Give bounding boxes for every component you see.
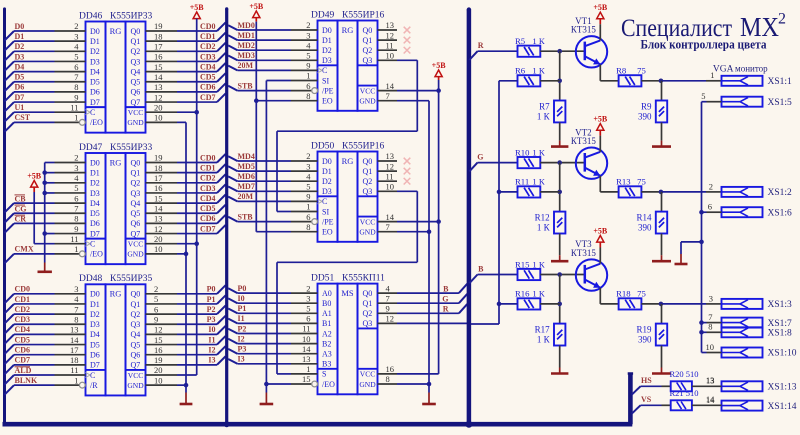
svg-text:75: 75: [637, 66, 646, 76]
svg-text:D4: D4: [15, 62, 25, 71]
svg-text:D4: D4: [90, 199, 100, 208]
svg-text:I0: I0: [238, 294, 245, 303]
svg-text:Q4: Q4: [131, 67, 141, 76]
svg-text:+5В: +5В: [190, 3, 205, 12]
svg-text:Q3: Q3: [363, 319, 373, 328]
svg-text:D6: D6: [90, 351, 100, 360]
svg-text:+5В: +5В: [27, 172, 42, 181]
svg-text:8: 8: [74, 214, 78, 224]
svg-text:Q4: Q4: [131, 199, 141, 208]
svg-text:6: 6: [74, 62, 78, 72]
svg-text:12: 12: [386, 30, 395, 40]
svg-text:D3: D3: [322, 56, 332, 65]
svg-text:DD48: DD48: [79, 274, 102, 284]
svg-text:15: 15: [302, 374, 311, 384]
svg-text:CD1: CD1: [15, 295, 31, 304]
svg-text:7: 7: [386, 91, 390, 101]
svg-text:19: 19: [154, 153, 163, 163]
svg-text:CD2: CD2: [15, 305, 31, 314]
svg-text:Блок контроллера цвета: Блок контроллера цвета: [641, 37, 767, 52]
svg-text:R19: R19: [636, 325, 652, 335]
svg-text:VCC: VCC: [360, 86, 375, 95]
svg-text:14: 14: [302, 344, 311, 354]
svg-text:Q0: Q0: [131, 158, 141, 167]
svg-text:11: 11: [302, 324, 310, 334]
svg-text:CD2: CD2: [200, 42, 216, 51]
svg-text:D5: D5: [90, 209, 100, 218]
svg-text:14: 14: [154, 72, 163, 82]
svg-text:GND: GND: [359, 380, 376, 389]
svg-text:7: 7: [74, 203, 78, 213]
svg-text:7: 7: [708, 312, 712, 322]
svg-text:R8: R8: [616, 66, 627, 76]
svg-text:D6: D6: [90, 219, 100, 228]
svg-text:12: 12: [386, 161, 395, 171]
svg-text:I2: I2: [208, 346, 215, 355]
svg-text:1 К: 1 К: [537, 111, 551, 121]
svg-text:390: 390: [638, 111, 652, 121]
svg-text:D7: D7: [90, 98, 100, 107]
svg-text:14: 14: [706, 394, 715, 404]
svg-text:CD7: CD7: [15, 356, 31, 365]
svg-text:D2: D2: [322, 177, 332, 186]
svg-text:Q3: Q3: [131, 57, 141, 66]
svg-text:D2: D2: [15, 42, 25, 51]
svg-text:15: 15: [154, 193, 163, 203]
svg-text:CD0: CD0: [200, 22, 216, 31]
svg-text:D2: D2: [90, 310, 100, 319]
svg-text:R6: R6: [515, 66, 526, 76]
svg-text:5: 5: [306, 182, 310, 192]
svg-text:Q1: Q1: [363, 167, 373, 176]
svg-text:1: 1: [74, 113, 78, 123]
svg-text:19: 19: [154, 21, 163, 31]
svg-text:RG: RG: [110, 289, 122, 299]
svg-text:10: 10: [386, 51, 395, 61]
svg-text:Q1: Q1: [131, 37, 141, 46]
svg-text:Q2: Q2: [363, 177, 373, 186]
svg-text:14: 14: [386, 212, 395, 222]
svg-text:XS1:3: XS1:3: [768, 300, 793, 310]
svg-text:R14: R14: [636, 213, 652, 223]
svg-text:К555ИР16: К555ИР16: [342, 141, 384, 151]
svg-text:1: 1: [74, 244, 78, 254]
svg-text:D1: D1: [322, 167, 332, 176]
svg-text:XS1:6: XS1:6: [768, 208, 793, 218]
svg-text:D1: D1: [90, 168, 100, 177]
svg-text:+5В: +5В: [432, 61, 447, 70]
svg-text:XS1:5: XS1:5: [768, 98, 793, 108]
svg-text:13: 13: [706, 375, 715, 385]
svg-text:+5В: +5В: [593, 227, 608, 236]
svg-text:Q6: Q6: [131, 219, 141, 228]
svg-text:17: 17: [70, 345, 79, 355]
svg-text:R13: R13: [616, 177, 630, 187]
svg-text:CR: CR: [15, 215, 27, 224]
svg-text:D2: D2: [322, 46, 332, 55]
svg-text:RG: RG: [342, 156, 354, 166]
svg-text:G: G: [477, 152, 483, 161]
svg-text:A2: A2: [322, 329, 332, 338]
svg-text:D5: D5: [90, 340, 100, 349]
svg-text:7: 7: [386, 293, 390, 303]
svg-text:/PE: /PE: [322, 86, 334, 95]
svg-text:Q0: Q0: [363, 26, 373, 35]
svg-text:1: 1: [306, 202, 310, 212]
svg-text:XS1:7: XS1:7: [768, 319, 793, 329]
svg-text:1 К: 1 К: [532, 177, 545, 187]
svg-text:P2: P2: [238, 324, 247, 333]
svg-text:14: 14: [70, 335, 79, 345]
svg-text:R18: R18: [616, 289, 631, 299]
svg-text:16: 16: [154, 183, 163, 193]
svg-text:CG: CG: [15, 204, 27, 213]
svg-text:DD49: DD49: [311, 10, 334, 20]
svg-text:Q7: Q7: [131, 361, 141, 370]
svg-text:Q5: Q5: [131, 78, 141, 87]
svg-text:15: 15: [154, 62, 163, 72]
svg-text:12: 12: [154, 224, 163, 234]
svg-text:DD47: DD47: [79, 143, 102, 153]
svg-text:C: C: [90, 240, 95, 249]
svg-text:14: 14: [386, 81, 395, 91]
svg-text:75: 75: [637, 289, 646, 299]
svg-text:D0: D0: [90, 27, 100, 36]
svg-text:1 К: 1 К: [537, 222, 551, 232]
svg-text:B2: B2: [322, 339, 331, 348]
svg-text:MD2: MD2: [238, 41, 255, 50]
svg-text:MD3: MD3: [238, 51, 255, 60]
svg-text:1 К: 1 К: [532, 36, 545, 46]
svg-text:5: 5: [74, 52, 78, 62]
svg-text:10: 10: [154, 113, 163, 123]
svg-text:2: 2: [74, 153, 78, 163]
svg-text:CD5: CD5: [200, 73, 216, 82]
svg-text:1 К: 1 К: [532, 147, 545, 157]
svg-text:2: 2: [154, 284, 158, 294]
svg-text:MD6: MD6: [238, 172, 255, 181]
svg-text:20: 20: [154, 102, 163, 112]
svg-text:P0: P0: [238, 284, 247, 293]
svg-text:STB: STB: [238, 212, 254, 221]
svg-text:CD5: CD5: [15, 335, 31, 344]
svg-text:B1: B1: [322, 319, 331, 328]
svg-text:13: 13: [386, 151, 395, 161]
svg-text:MD5: MD5: [238, 162, 255, 171]
svg-text:8: 8: [386, 374, 390, 384]
svg-text:C: C: [322, 66, 327, 75]
svg-text:16: 16: [386, 364, 395, 374]
svg-text:10: 10: [302, 334, 311, 344]
svg-text:1: 1: [306, 364, 310, 374]
svg-text:11: 11: [70, 102, 78, 112]
svg-text:D6: D6: [15, 83, 25, 92]
svg-text:6: 6: [306, 212, 310, 222]
svg-text:GND: GND: [127, 381, 144, 390]
svg-text:390: 390: [638, 334, 652, 344]
svg-text:8: 8: [74, 82, 78, 92]
svg-text:Q3: Q3: [131, 320, 141, 329]
svg-text:монитор: монитор: [735, 64, 768, 74]
svg-text:B0: B0: [322, 299, 331, 308]
svg-text:20: 20: [154, 234, 163, 244]
svg-text:Q3: Q3: [363, 187, 373, 196]
svg-text:P3: P3: [207, 315, 216, 324]
svg-text:D3: D3: [15, 52, 25, 61]
svg-text:16: 16: [154, 345, 163, 355]
svg-text:B3: B3: [322, 360, 331, 369]
svg-text:B: B: [478, 264, 484, 273]
svg-text:HS: HS: [641, 376, 652, 385]
svg-text:I1: I1: [208, 335, 215, 344]
svg-text:Q4: Q4: [131, 330, 141, 339]
svg-text:12: 12: [154, 92, 163, 102]
svg-text:I1: I1: [238, 314, 245, 323]
svg-text:VCC: VCC: [128, 108, 143, 117]
svg-text:D0: D0: [90, 290, 100, 299]
svg-text:D5: D5: [90, 78, 100, 87]
svg-text:Q6: Q6: [131, 88, 141, 97]
svg-text:Q2: Q2: [363, 309, 373, 318]
svg-text:R20 510: R20 510: [670, 369, 699, 379]
svg-text:S: S: [322, 370, 326, 379]
svg-text:Q2: Q2: [131, 310, 141, 319]
svg-text:2: 2: [778, 11, 786, 28]
svg-text:D6: D6: [90, 88, 100, 97]
svg-text:КТ315: КТ315: [571, 248, 597, 258]
svg-text:Q5: Q5: [131, 209, 141, 218]
svg-text:3: 3: [74, 31, 78, 41]
svg-text:VCC: VCC: [360, 217, 375, 226]
svg-text:CD6: CD6: [200, 214, 216, 223]
svg-text:CD4: CD4: [15, 325, 31, 334]
svg-text:D5: D5: [15, 73, 25, 82]
svg-text:3: 3: [74, 284, 78, 294]
svg-text:DD51: DD51: [311, 273, 334, 283]
svg-text:13: 13: [386, 20, 395, 30]
svg-text:CD4: CD4: [200, 194, 216, 203]
svg-text:10: 10: [386, 182, 395, 192]
svg-text:11: 11: [386, 40, 394, 50]
svg-text:5: 5: [74, 183, 78, 193]
svg-text:2: 2: [709, 181, 713, 191]
svg-text:CD3: CD3: [200, 184, 216, 193]
svg-text:CB: CB: [15, 194, 27, 203]
svg-text:CD2: CD2: [200, 174, 216, 183]
svg-text:5: 5: [701, 91, 705, 101]
svg-text:19: 19: [154, 355, 163, 365]
svg-text:КТ315: КТ315: [571, 136, 597, 146]
svg-text:MD1: MD1: [238, 31, 255, 40]
svg-text:P0: P0: [207, 285, 216, 294]
svg-text:Q0: Q0: [131, 27, 141, 36]
svg-text:10: 10: [154, 375, 163, 385]
svg-text:Q5: Q5: [131, 340, 141, 349]
svg-text:C: C: [322, 197, 327, 206]
svg-text:7: 7: [74, 72, 78, 82]
svg-text:12: 12: [386, 314, 395, 324]
svg-text:11: 11: [70, 365, 78, 375]
svg-text:2: 2: [306, 20, 310, 30]
svg-text:D3: D3: [90, 189, 100, 198]
svg-text:D1: D1: [15, 32, 25, 41]
svg-text:I3: I3: [238, 355, 245, 364]
svg-text:8: 8: [306, 222, 310, 232]
svg-text:VCC: VCC: [128, 371, 143, 380]
svg-text:VCC: VCC: [128, 240, 143, 249]
svg-text:D3: D3: [322, 187, 332, 196]
svg-text:CD7: CD7: [200, 93, 216, 102]
svg-text:R12: R12: [535, 213, 550, 223]
svg-text:G: G: [442, 295, 448, 304]
svg-text:P1: P1: [238, 304, 247, 313]
svg-text:MD0: MD0: [238, 21, 255, 30]
svg-text:I3: I3: [208, 356, 215, 365]
svg-text:16: 16: [154, 52, 163, 62]
svg-text:R21 510: R21 510: [670, 388, 699, 398]
svg-text:XS1:14: XS1:14: [768, 402, 797, 412]
svg-text:6: 6: [306, 81, 310, 91]
svg-text:12: 12: [154, 325, 163, 335]
svg-text:A0: A0: [322, 289, 332, 298]
svg-text:D7: D7: [90, 361, 100, 370]
svg-text:2: 2: [306, 283, 310, 293]
svg-text:/EO: /EO: [90, 250, 103, 259]
svg-text:GND: GND: [359, 97, 376, 106]
svg-text:3: 3: [74, 163, 78, 173]
svg-text:9: 9: [386, 304, 390, 314]
svg-text:MS: MS: [341, 288, 354, 298]
svg-text:20: 20: [154, 365, 163, 375]
svg-text:Q1: Q1: [131, 300, 141, 309]
svg-text:КТ315: КТ315: [571, 25, 597, 35]
svg-text:CD6: CD6: [15, 346, 31, 355]
svg-text:6: 6: [154, 304, 158, 314]
svg-text:XS1:10: XS1:10: [768, 349, 797, 359]
svg-text:17: 17: [154, 173, 163, 183]
svg-text:R5: R5: [515, 36, 525, 46]
svg-text:390: 390: [638, 222, 652, 232]
svg-text:D0: D0: [15, 22, 25, 31]
svg-text:Q6: Q6: [131, 351, 141, 360]
svg-text:11: 11: [70, 234, 78, 244]
svg-text:D3: D3: [90, 320, 100, 329]
svg-text:9: 9: [306, 192, 310, 202]
svg-text:D0: D0: [90, 158, 100, 167]
svg-text:7: 7: [386, 222, 390, 232]
svg-text:XS1:2: XS1:2: [768, 188, 793, 198]
svg-text:SI: SI: [322, 76, 329, 85]
svg-text:/PE: /PE: [322, 217, 334, 226]
svg-text:Q3: Q3: [131, 189, 141, 198]
svg-text:R9: R9: [641, 102, 652, 112]
svg-text:13: 13: [154, 82, 163, 92]
svg-text:A3: A3: [322, 350, 332, 359]
svg-text:13: 13: [154, 214, 163, 224]
svg-text:Q0: Q0: [131, 290, 141, 299]
svg-text:1 К: 1 К: [532, 289, 545, 299]
svg-text:10: 10: [706, 342, 715, 352]
svg-text:10: 10: [154, 244, 163, 254]
svg-text:Q3: Q3: [363, 56, 373, 65]
svg-text:R: R: [478, 41, 484, 50]
svg-text:Q1: Q1: [363, 36, 373, 45]
svg-text:CD6: CD6: [200, 83, 216, 92]
svg-text:Q1: Q1: [363, 299, 373, 308]
svg-text:6: 6: [74, 193, 78, 203]
svg-text:+5В: +5В: [593, 3, 608, 12]
svg-text:D2: D2: [90, 179, 100, 188]
svg-text:P2: P2: [207, 305, 216, 314]
svg-text:3: 3: [709, 293, 713, 303]
svg-text:Q0: Q0: [363, 157, 373, 166]
svg-text:D0: D0: [322, 26, 332, 35]
svg-text:A1: A1: [322, 309, 332, 318]
svg-text:CD7: CD7: [200, 224, 216, 233]
svg-text:P1: P1: [207, 295, 216, 304]
svg-text:7: 7: [74, 304, 78, 314]
svg-text:P3: P3: [238, 345, 247, 354]
svg-text:GND: GND: [127, 250, 144, 259]
svg-text:BLNK: BLNK: [15, 376, 38, 385]
svg-text:+5В: +5В: [249, 2, 264, 11]
svg-text:D1: D1: [90, 37, 100, 46]
svg-text:STB: STB: [238, 81, 254, 90]
svg-text:20M: 20M: [238, 192, 254, 201]
svg-text:2: 2: [306, 151, 310, 161]
svg-text:D1: D1: [90, 300, 100, 309]
svg-text:XS1:1: XS1:1: [768, 77, 793, 87]
svg-text:RG: RG: [110, 157, 122, 167]
svg-text:R17: R17: [535, 325, 551, 335]
svg-text:/R: /R: [90, 381, 98, 390]
svg-text:3: 3: [306, 293, 310, 303]
svg-text:6: 6: [708, 202, 712, 212]
svg-text:8: 8: [306, 91, 310, 101]
svg-text:VCC: VCC: [360, 370, 375, 379]
svg-text:3: 3: [306, 161, 310, 171]
svg-text:Q0: Q0: [363, 289, 373, 298]
svg-text:MD4: MD4: [238, 152, 255, 161]
svg-text:R16: R16: [515, 289, 530, 299]
svg-text:8: 8: [74, 314, 78, 324]
svg-text:I2: I2: [238, 334, 245, 343]
svg-text:R7: R7: [539, 102, 550, 112]
svg-text:D4: D4: [90, 330, 100, 339]
svg-text:13: 13: [70, 325, 79, 335]
svg-text:D0: D0: [322, 157, 332, 166]
svg-text:18: 18: [154, 163, 163, 173]
svg-text:/EO: /EO: [90, 118, 103, 127]
svg-text:MD7: MD7: [238, 182, 255, 191]
svg-text:1: 1: [74, 375, 78, 385]
svg-text:9: 9: [154, 314, 158, 324]
svg-text:D7: D7: [15, 93, 25, 102]
svg-text:14: 14: [154, 203, 163, 213]
svg-text:SI: SI: [322, 207, 329, 216]
svg-text:Q1: Q1: [131, 168, 141, 177]
svg-text:Q2: Q2: [131, 179, 141, 188]
svg-text:5: 5: [306, 51, 310, 61]
svg-text:CD0: CD0: [200, 153, 216, 162]
svg-text:1 К: 1 К: [532, 66, 545, 76]
svg-text:Q2: Q2: [363, 46, 373, 55]
svg-text:ALD: ALD: [15, 366, 32, 375]
svg-text:К555ИР33: К555ИР33: [110, 11, 152, 21]
svg-text:RG: RG: [110, 26, 122, 36]
svg-text:11: 11: [386, 171, 394, 181]
svg-text:CD1: CD1: [200, 163, 216, 172]
